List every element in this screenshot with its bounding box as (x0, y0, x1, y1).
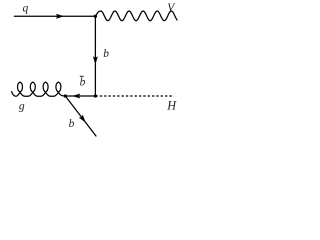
arrow on bbar line (pointing left) (72, 94, 80, 99)
svg-text:H: H (166, 99, 177, 113)
arrow on diagonal b line (pointing down-right) (79, 114, 86, 122)
wire: incoming quark q line (14, 15, 95, 17)
vertex B (94, 94, 97, 97)
higgs boson dashed line H (95, 95, 173, 97)
svg-text:q: q (23, 2, 29, 14)
vertex C (64, 94, 67, 97)
arrow on b line (pointing down) (93, 56, 98, 64)
vertex A (94, 15, 97, 18)
gluon line g (curly) (12, 82, 66, 96)
fermion line b (vertical, vertex A to vertex B) (94, 16, 96, 96)
svg-text:b: b (69, 118, 75, 130)
svg-text:b: b (103, 48, 109, 60)
svg-text:g: g (19, 100, 25, 112)
arrow on q line (pointing right) (56, 14, 64, 19)
svg-text:b: b (80, 77, 86, 89)
boson line V (wavy) (95, 11, 177, 21)
overline of bbar (80, 75, 84, 77)
fermion line b (diagonal outgoing from vertex C) (65, 96, 96, 136)
antiquark line bbar (vertex B to vertex C) (65, 95, 95, 97)
